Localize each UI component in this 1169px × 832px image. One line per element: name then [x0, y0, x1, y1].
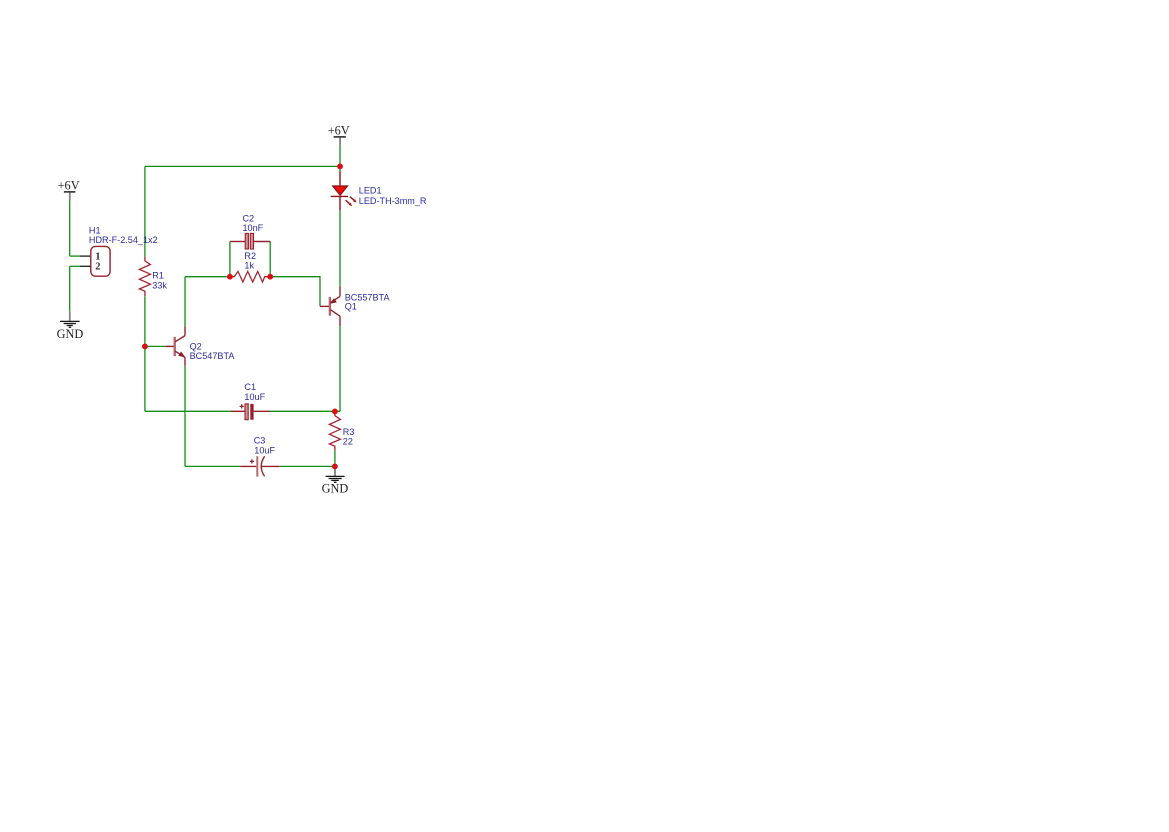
svg-text:C1: C1 — [244, 382, 256, 392]
svg-text:GND: GND — [322, 482, 349, 496]
wire collector horizontal to R2 — [185, 276, 230, 278]
node junction +6V/LED — [337, 164, 343, 170]
svg-text:22: 22 — [343, 436, 353, 446]
wire Q2 base — [145, 345, 166, 347]
wire R3 bottom — [334, 450, 336, 466]
wire C3 right to GND node — [280, 465, 335, 467]
wire horizontal to C1 — [145, 410, 231, 412]
wire pin 2 to left — [70, 265, 80, 267]
wire Q2 emitter down — [184, 366, 186, 467]
wire R2 right to Q1 base — [270, 277, 320, 307]
svg-text:+6V: +6V — [328, 124, 350, 138]
svg-text:33k: 33k — [152, 281, 167, 291]
node junction C1/R3/Q1 — [332, 409, 338, 415]
wire C2 right vertical — [269, 242, 271, 277]
capacitor C2 — [230, 233, 270, 249]
svg-text:HDR-F-2.54_1x2: HDR-F-2.54_1x2 — [89, 235, 158, 245]
svg-text:10uF: 10uF — [244, 392, 265, 402]
wire C1 right to Q1 collector — [270, 410, 340, 412]
svg-text:1k: 1k — [244, 261, 254, 271]
wire left vertical R1 top — [144, 166, 146, 256]
connector H1 — [80, 246, 110, 276]
svg-text:R1: R1 — [152, 270, 164, 280]
resistor R1 — [139, 256, 150, 296]
wire LED cathode to Q1 emitter — [339, 211, 341, 287]
transistor Q2 — [166, 326, 186, 365]
wire +6V stub to node — [339, 146, 341, 167]
node junction R1/Q2 base — [142, 344, 148, 350]
svg-text:2: 2 — [95, 262, 100, 273]
svg-text:10nF: 10nF — [243, 223, 264, 233]
wire bottom horizontal to C3 — [185, 465, 240, 467]
svg-text:10uF: 10uF — [254, 445, 275, 455]
power +6V top net label — [328, 124, 350, 146]
wire Q2 collector up — [184, 277, 186, 327]
wire R1 bottom to base node — [144, 296, 146, 346]
ground GND left — [57, 311, 84, 341]
node junction R2 left — [227, 274, 233, 280]
svg-text:GND: GND — [57, 327, 84, 341]
wire left +6V down — [69, 200, 71, 256]
svg-text:Q1: Q1 — [345, 302, 357, 312]
capacitor C1 — [231, 404, 270, 420]
wire C2 left vertical — [229, 242, 231, 277]
wire left GND down — [69, 266, 71, 311]
svg-text:+6V: +6V — [58, 179, 80, 193]
svg-text:C2: C2 — [243, 213, 255, 223]
wire top horizontal — [145, 165, 340, 167]
power +6V left net label — [58, 179, 80, 201]
svg-text:LED1: LED1 — [359, 186, 382, 196]
wire R3 top horizontal — [335, 410, 340, 412]
wire base node down — [144, 346, 146, 411]
node junction R2 right — [267, 274, 273, 280]
node junction R3/C3/GND — [332, 464, 338, 470]
svg-text:BC547BTA: BC547BTA — [190, 351, 236, 361]
ground GND bottom — [322, 467, 349, 496]
resistor R2 — [230, 271, 270, 282]
LED LED1 — [331, 172, 357, 211]
svg-text:LED-TH-3mm_R: LED-TH-3mm_R — [359, 196, 427, 206]
wire node to LED anode — [339, 166, 341, 171]
wire to pin 1 — [70, 255, 80, 257]
wire Q1 collector down — [339, 326, 341, 411]
resistor R3 — [329, 411, 340, 450]
capacitor C3 — [240, 456, 280, 477]
transistor Q1 — [320, 286, 340, 326]
svg-text:H1: H1 — [89, 226, 101, 236]
svg-text:C3: C3 — [254, 435, 266, 445]
svg-text:R3: R3 — [343, 427, 355, 437]
